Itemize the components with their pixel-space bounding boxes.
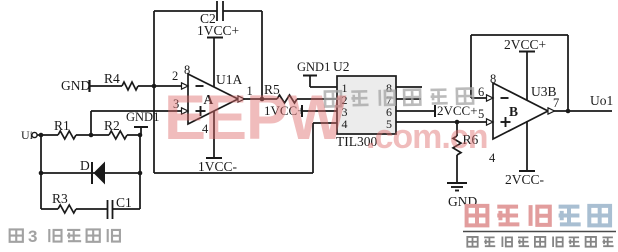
resistor R3 <box>52 191 76 213</box>
U1A plus sign <box>196 106 206 116</box>
wire diode row <box>41 172 140 174</box>
resistor R1 <box>54 118 76 139</box>
power port 1VCC+ (U1A pin 8) <box>197 23 239 38</box>
wire R4 to node N1 <box>138 85 154 87</box>
U2 pin 8 stub <box>396 86 422 88</box>
power port GND1 (left) <box>126 110 159 134</box>
svg-text:1VCC+: 1VCC+ <box>197 23 239 38</box>
wire U3B feedback right vertical <box>567 35 569 111</box>
diode D <box>80 158 105 185</box>
wire R1 to R2 node <box>76 134 109 136</box>
pin 3 caret U1A <box>182 108 189 114</box>
svg-text:3: 3 <box>28 227 37 246</box>
wire U3B feedback left vertical <box>470 35 472 98</box>
U2 pin 1 number <box>342 81 348 95</box>
label B <box>509 104 518 119</box>
power port GND1 (U2 pin 1) <box>297 60 330 87</box>
wire divider node up <box>90 111 92 135</box>
U2 pin 2 number <box>342 93 348 107</box>
wire feedback left vertical <box>153 11 155 173</box>
power port 2VCC- (U3B pin 4) <box>505 121 545 187</box>
pin 1 caret U1A output <box>238 96 245 102</box>
logo tagline 射频和天线设计专家 <box>467 237 477 247</box>
svg-text:7: 7 <box>553 96 559 110</box>
U3B plus sign <box>501 117 511 127</box>
resistor R2 <box>104 118 127 139</box>
wire Ui to R1 <box>38 134 59 136</box>
svg-text:R4: R4 <box>104 71 120 86</box>
svg-text:4: 4 <box>489 151 496 165</box>
wire 1VCC+ to U1A pin 8 <box>213 38 215 89</box>
wire feedback top right <box>224 10 263 12</box>
node diode cathode junction <box>39 171 44 176</box>
op-amp U3B body <box>493 83 548 139</box>
wire GND1 to U2 pin 1 <box>310 86 337 88</box>
power port 2VCC+ (U2 pin 6) <box>435 103 478 118</box>
label U3B <box>531 84 557 99</box>
node output junction <box>260 97 265 102</box>
wire feedback top left <box>154 10 217 12</box>
wire U1A output <box>244 98 278 100</box>
terminal Ui input <box>21 128 37 142</box>
U2 pin 5 number <box>386 117 392 131</box>
pin 2 caret U1A <box>182 83 189 89</box>
power port GND (left, to R4) <box>61 78 90 93</box>
wire U3B pin 6 <box>471 97 487 99</box>
wire U3B feedback top <box>471 34 568 36</box>
wire lower feedback up to U2 pin4 <box>312 123 314 173</box>
wire U3B output <box>554 110 613 112</box>
pin number 6 <box>478 85 484 99</box>
wire Ui column down <box>40 135 42 209</box>
wire R2 to GND1 node <box>127 134 140 136</box>
node Ui junction <box>39 133 44 138</box>
op-amp U1A body <box>188 74 238 124</box>
node diode anode junction <box>138 171 143 176</box>
pin 7 caret U3B output <box>548 108 555 114</box>
pin number 7 U3B <box>553 96 559 110</box>
terminal Uo1 output <box>590 93 613 108</box>
pin number 4 U1A <box>202 122 209 136</box>
wire U2 pin 5 to U3B pin 5 <box>396 121 487 123</box>
svg-text:1VCC-: 1VCC- <box>198 159 238 174</box>
node R6 junction <box>455 120 460 125</box>
U2 pin 3 number <box>342 105 348 119</box>
resistor R4 <box>104 71 138 90</box>
svg-text:EEPW: EEPW <box>164 83 347 153</box>
logo 易迪拓培训 <box>467 206 488 226</box>
svg-text:GND1: GND1 <box>126 110 159 124</box>
pin number 3 <box>173 97 179 111</box>
pin number 1 U1A <box>247 84 253 98</box>
caption 图3 调理电路 <box>10 229 23 241</box>
wire R5 to U2 pin 2 <box>297 98 337 100</box>
wire R3 row left <box>41 208 58 210</box>
svg-text:.com.cn: .com.cn <box>366 118 487 156</box>
U2 pin 7 number <box>386 93 392 107</box>
power port 1VCC+ (U2 pin 3) <box>264 103 305 118</box>
wire node N1 to U1A pin 2 <box>154 85 182 87</box>
U2 pin 4 number <box>342 117 348 131</box>
pin number 8 U3B <box>490 72 496 86</box>
pin number 2 <box>172 69 178 83</box>
node N1 junction (inverting input net) <box>152 84 157 89</box>
IC U2 TIL300 body <box>337 76 396 134</box>
pin number 4 U3B <box>489 151 496 165</box>
svg-text:2VCC+: 2VCC+ <box>504 37 546 52</box>
power port 1VCC- (U1A pin 4) <box>198 112 238 175</box>
pin 6 caret U3B <box>487 95 494 101</box>
U2 pin 7 stub <box>396 98 421 100</box>
svg-text:U2: U2 <box>333 59 350 74</box>
watermark gray CJK (电子产品世界) <box>325 88 473 107</box>
logo rule line <box>463 231 616 233</box>
svg-text:8: 8 <box>184 63 190 77</box>
label TIL300 <box>336 134 377 149</box>
svg-text:D: D <box>80 158 90 173</box>
svg-text:6: 6 <box>478 85 484 99</box>
wire lower feedback bottom <box>154 172 313 174</box>
node R2 right junction <box>138 133 143 138</box>
wire C1 to right column <box>113 208 140 210</box>
wire right column down <box>139 135 141 209</box>
U3B minus sign <box>501 97 509 99</box>
wire R3 to C1 <box>76 208 107 210</box>
pin number 8 U1A <box>184 63 190 77</box>
resistor R5 <box>264 82 297 103</box>
power port 2VCC+ (U3B pin 8) <box>504 37 546 52</box>
ground GND (earth) <box>447 183 477 209</box>
wire 2VCC+ to U3B pin 8 <box>526 52 528 102</box>
svg-text:2: 2 <box>172 69 178 83</box>
svg-text:C1: C1 <box>116 195 132 210</box>
label U2 <box>333 59 350 74</box>
label U1A <box>216 72 242 87</box>
pin 5 caret U3B <box>487 119 494 125</box>
svg-text:GND: GND <box>61 78 90 93</box>
node U3B output junction <box>566 109 571 114</box>
svg-text:Uo1: Uo1 <box>590 93 613 108</box>
capacitor C1 <box>108 195 132 219</box>
U2 pin 8 number <box>386 81 392 95</box>
wire 1VCC+ to U2 pin 3 <box>302 110 337 112</box>
pin number 5 <box>478 107 484 121</box>
wire C2 to output vertical <box>261 11 263 99</box>
label A <box>204 92 214 107</box>
wire divider to U1A pin 3 <box>91 110 182 112</box>
wire to U2 pin 4 <box>313 122 337 124</box>
svg-text:2VCC-: 2VCC- <box>505 172 545 187</box>
wire GND to R4 <box>90 85 123 87</box>
svg-text:R1: R1 <box>54 118 70 133</box>
svg-text:2VCC+: 2VCC+ <box>437 103 478 118</box>
capacitor C2 <box>200 1 223 26</box>
node R1-R2 junction <box>89 133 94 138</box>
svg-text:8: 8 <box>490 72 496 86</box>
U2 pin 6 number <box>386 105 392 119</box>
svg-text:GND1: GND1 <box>297 60 330 74</box>
resistor R6 <box>453 122 479 183</box>
U1A minus sign <box>196 85 204 87</box>
wire U2 pin 6 to 2VCC+ <box>396 110 435 112</box>
svg-text:B: B <box>509 104 518 119</box>
